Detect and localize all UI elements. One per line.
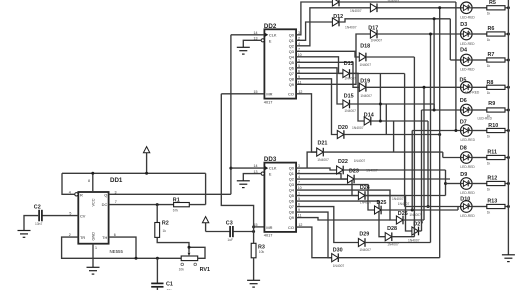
wire E DD2 to ground: [243, 40, 261, 47]
svg-text:Q7: Q7: [289, 204, 294, 209]
svg-text:1k: 1k: [163, 229, 167, 233]
svg-text:LED-RED: LED-RED: [460, 191, 475, 195]
wire D20 cathode: [344, 134, 440, 136]
LED D10: [461, 201, 473, 213]
wire D28 cathode: [392, 236, 415, 238]
svg-text:D4: D4: [460, 48, 467, 54]
wire D18 cathode to LED D4 row: [366, 56, 415, 58]
resistor R5: [472, 7, 487, 9]
counter DD3 body: [264, 163, 296, 232]
svg-text:D3: D3: [460, 22, 467, 28]
svg-text:15: 15: [254, 223, 258, 227]
R pin inversion circle: [75, 193, 78, 196]
svg-text:LED-RED: LED-RED: [460, 68, 475, 72]
svg-text:Q2: Q2: [289, 177, 294, 182]
svg-text:1N4007: 1N4007: [345, 26, 357, 30]
diode D19: [359, 83, 366, 92]
LED D9: [461, 178, 473, 190]
wire D25 cathode: [381, 209, 458, 211]
svg-text:7: 7: [115, 200, 117, 204]
wire D21 anode L: [307, 152, 317, 168]
resistor R3: [253, 227, 255, 243]
svg-text:Q9: Q9: [289, 82, 294, 87]
svg-text:67k: 67k: [173, 209, 179, 213]
wire D19 cathode to LED D5 row: [366, 86, 461, 88]
svg-text:E: E: [269, 38, 272, 43]
wire C2 to ground: [24, 216, 38, 231]
wire row8 anode: [446, 183, 461, 185]
wire Q0 DD3 to D22: [296, 168, 337, 170]
wire R2 bottom to RV1 wiper: [157, 237, 189, 252]
wire RV1 right terminal to wiper: [189, 247, 205, 258]
wire D17 cathode to LED D3 row: [377, 33, 461, 35]
LED D4: [461, 54, 473, 66]
wire bundle link A: [379, 74, 381, 122]
ground E DD2: [237, 47, 250, 54]
junction VCC pin 8: [91, 172, 94, 175]
wire Q2 DD3 to D24: [296, 179, 358, 195]
svg-text:MR: MR: [266, 92, 272, 97]
svg-text:Q9: Q9: [289, 215, 294, 220]
svg-text:C3: C3: [226, 221, 233, 227]
svg-text:1k: 1k: [487, 134, 491, 138]
svg-text:D20: D20: [338, 125, 348, 131]
wire bundle D30 to row1: [439, 8, 441, 258]
resistor R8: [472, 86, 487, 88]
svg-text:1N4007: 1N4007: [398, 202, 410, 206]
svg-text:R2: R2: [162, 221, 169, 227]
svg-text:1N4007: 1N4007: [409, 213, 421, 217]
ground right rail: [502, 255, 515, 262]
svg-text:1: 1: [95, 246, 97, 250]
diode D17: [370, 30, 377, 39]
wire row6 anode: [412, 130, 460, 132]
diode D29: [358, 238, 365, 247]
LED D3: [461, 28, 473, 40]
junction C3 node: [252, 230, 255, 233]
wire Q2 DD2 to D16: [296, 8, 370, 46]
wire D29 cathode: [365, 242, 431, 244]
wire D14 cathode: [371, 120, 428, 122]
resistor R13: [472, 206, 487, 208]
wire Q7 DD3 to D29: [296, 207, 358, 243]
svg-text:4017: 4017: [264, 99, 273, 104]
svg-text:10k: 10k: [179, 268, 185, 272]
diode D23: [348, 175, 355, 184]
diode D14: [364, 117, 371, 126]
resistor R12: [472, 183, 487, 185]
wire Q3 DD3 to D25: [296, 185, 374, 210]
svg-text:1N4007: 1N4007: [360, 200, 372, 204]
wire clock trunk vertical: [230, 35, 232, 195]
wire bundle D11 to row6: [455, 2, 457, 131]
svg-text:Q2: Q2: [289, 43, 294, 48]
wire Q6 DD2 to D15: [296, 68, 343, 104]
potentiometer RV1: [181, 256, 198, 261]
svg-text:LED-RED: LED-RED: [465, 91, 480, 95]
diode D15: [343, 100, 350, 109]
wire bundle D22 to row8: [445, 170, 447, 196]
svg-text:R10: R10: [488, 123, 498, 129]
svg-text:D6: D6: [460, 98, 467, 104]
svg-text:VCC: VCC: [92, 198, 96, 206]
wire bundle D23 to row9: [449, 19, 451, 60]
diode D21: [317, 148, 324, 157]
svg-text:1k: 1k: [487, 187, 491, 191]
svg-text:NE555: NE555: [110, 249, 124, 254]
svg-text:1k: 1k: [487, 38, 491, 42]
svg-text:10k: 10k: [259, 250, 265, 254]
wire Q0 DD2 to D11: [296, 2, 332, 35]
wire Q output to clock trunk: [109, 193, 231, 195]
diode D30: [332, 253, 339, 262]
diode D20: [337, 130, 344, 139]
ground E DD3: [237, 181, 250, 188]
svg-text:1k: 1k: [487, 210, 491, 214]
diode D26: [396, 216, 403, 225]
wire Q1 DD3 to D23: [296, 174, 347, 179]
wire bundle D14 to row9: [427, 121, 429, 207]
svg-text:Q8: Q8: [289, 210, 294, 215]
svg-text:1N4007: 1N4007: [366, 169, 378, 173]
svg-text:1N4007: 1N4007: [387, 0, 399, 4]
ground R3: [247, 280, 260, 287]
svg-text:D14: D14: [364, 113, 374, 119]
svg-text:D25: D25: [377, 200, 387, 206]
wire D21 cathode: [323, 151, 443, 153]
E inversion circle DD3: [261, 172, 264, 175]
svg-text:D8: D8: [460, 146, 467, 152]
svg-text:D12: D12: [333, 14, 343, 20]
LED D7: [461, 125, 473, 137]
svg-text:D10: D10: [460, 196, 470, 202]
svg-text:D5: D5: [460, 77, 467, 83]
svg-text:GND: GND: [92, 232, 96, 241]
junction R2 top: [156, 203, 159, 206]
svg-text:Q4: Q4: [289, 54, 295, 59]
wire TR pin loop: [62, 237, 182, 258]
svg-text:Q3: Q3: [289, 49, 294, 54]
wire D23 cathode: [354, 178, 450, 180]
diode D13: [343, 69, 350, 78]
svg-text:DD3: DD3: [264, 156, 277, 163]
wire Q4 DD3 to D26: [296, 190, 396, 220]
svg-text:1k: 1k: [487, 114, 491, 118]
svg-text:R9: R9: [488, 101, 495, 107]
resistor R6: [472, 33, 487, 35]
svg-text:CV: CV: [80, 214, 86, 219]
wire Q8 DD2 to D20: [296, 79, 337, 135]
ground C2: [18, 231, 31, 238]
wire D26 cathode: [403, 219, 424, 221]
wire CO DD3 to D30: [296, 227, 332, 258]
wire bundle D12 to row5: [433, 19, 435, 110]
svg-text:1N4007: 1N4007: [360, 63, 372, 67]
wire row5 anode: [422, 109, 461, 111]
junction D25 row bundle: [411, 209, 414, 212]
svg-text:1N4007: 1N4007: [344, 109, 356, 113]
svg-text:1N4007: 1N4007: [360, 94, 372, 98]
svg-text:R12: R12: [487, 176, 497, 182]
wire VCC top rail: [62, 172, 206, 174]
E inversion circle DD2: [261, 39, 264, 42]
svg-text:R7: R7: [488, 52, 495, 58]
wire D24 cathode: [365, 195, 446, 197]
svg-text:R13: R13: [487, 199, 497, 205]
wire Q8 DD3 to D30 anode: [296, 212, 332, 258]
wire D27 cathode: [418, 230, 421, 232]
svg-text:Q4: Q4: [289, 188, 295, 193]
power arrow VCC near C3: [205, 223, 207, 232]
wire Q9 DD2 to D17: [296, 34, 370, 84]
svg-text:DC: DC: [102, 202, 108, 207]
wire Q5 DD2 to D19: [296, 62, 359, 87]
wire R3 to ground: [253, 258, 255, 281]
svg-text:D17: D17: [368, 26, 378, 32]
diode D12: [332, 18, 339, 27]
wire Q1 DD2 to D12: [296, 22, 332, 40]
wire DC pin to R1: [109, 204, 174, 206]
svg-text:1N4007: 1N4007: [354, 159, 366, 163]
junction DD3 clock tee: [229, 167, 232, 170]
svg-text:6: 6: [114, 233, 116, 237]
svg-text:Q: Q: [104, 193, 107, 198]
svg-text:R: R: [80, 192, 83, 197]
resistor R10: [472, 130, 487, 132]
op-amp/timer DD1 NE555 body: [78, 192, 108, 244]
wire bundle D21 to row7: [442, 152, 444, 157]
svg-text:Q7: Q7: [289, 71, 294, 76]
resistor R2: [156, 205, 158, 223]
svg-text:DD2: DD2: [264, 23, 277, 30]
svg-text:1N4007: 1N4007: [359, 248, 371, 252]
wire bundle D15 down: [433, 104, 435, 110]
wire bundle D18 to D28: [413, 57, 415, 237]
wire MR DD3 stub: [254, 226, 265, 228]
junction C1 on bottom rail: [156, 257, 159, 260]
wire D22 cathode: [343, 169, 445, 171]
svg-text:D9: D9: [460, 172, 467, 178]
svg-text:D29: D29: [359, 232, 369, 238]
svg-text:D19: D19: [360, 79, 370, 85]
svg-text:CLK: CLK: [269, 166, 277, 171]
wire Q5 DD3 to D27: [296, 196, 412, 231]
wire VCC rail drop to R1: [205, 173, 207, 204]
svg-text:1uF: 1uF: [227, 238, 233, 242]
LED D6: [461, 104, 473, 116]
svg-text:R11: R11: [487, 150, 497, 156]
junction RV1 wiper link: [188, 246, 191, 249]
wire D12 cathode: [339, 19, 450, 22]
svg-text:1k: 1k: [487, 64, 491, 68]
LED D5: [461, 82, 473, 94]
wire CLK DD3: [231, 167, 265, 169]
LED D2: [461, 2, 473, 14]
svg-text:D23: D23: [349, 169, 359, 175]
svg-text:LED-RED: LED-RED: [478, 117, 493, 121]
resistor R9: [472, 109, 487, 111]
svg-text:1N4007: 1N4007: [317, 158, 329, 162]
wire Q9 DD3 jog: [296, 218, 390, 220]
wire E DD3 to ground: [243, 174, 261, 181]
diode D16: [370, 4, 377, 13]
svg-text:R6: R6: [488, 26, 495, 32]
svg-text:1N4007: 1N4007: [371, 39, 383, 43]
svg-text:Q0: Q0: [289, 32, 295, 37]
svg-text:Q3: Q3: [289, 182, 294, 187]
wire bundle link B: [385, 104, 387, 135]
svg-text:Q6: Q6: [289, 199, 294, 204]
wire bundle D25 jog to row9: [457, 207, 459, 211]
wire GND pin 1: [92, 244, 94, 268]
wire MR DD2 stub: [221, 93, 264, 95]
capacitor C1: [156, 258, 158, 283]
svg-text:RV1: RV1: [200, 267, 210, 273]
wire bundle D25 to row6: [411, 131, 413, 211]
wire R pin to VCC rail: [62, 173, 75, 194]
svg-text:Q0: Q0: [289, 166, 295, 171]
svg-text:DD1: DD1: [110, 177, 123, 184]
diode D27: [412, 227, 419, 236]
svg-text:1N4007: 1N4007: [333, 264, 345, 268]
wire right ground rail: [507, 0, 509, 255]
svg-text:E: E: [269, 172, 272, 177]
svg-text:Q1: Q1: [289, 171, 294, 176]
svg-text:D7: D7: [460, 120, 467, 126]
svg-text:D22: D22: [338, 159, 348, 165]
svg-text:Q5: Q5: [289, 193, 294, 198]
wire D16 cathode to LED D2 row: [377, 7, 461, 9]
svg-text:LED-RED: LED-RED: [460, 42, 475, 46]
resistor R1: [174, 203, 190, 207]
svg-text:1k: 1k: [487, 161, 491, 165]
svg-text:LED-RED: LED-RED: [460, 165, 475, 169]
junction dots on LED rows: [438, 6, 441, 9]
svg-text:1N4007: 1N4007: [392, 197, 404, 201]
junction TH on bottom rail: [135, 257, 138, 260]
svg-text:D13: D13: [344, 61, 354, 67]
svg-text:LED-RED: LED-RED: [460, 214, 475, 218]
wire D13 cathode: [349, 73, 404, 75]
svg-text:1k: 1k: [487, 91, 491, 95]
wire Q6 DD3 to D28: [296, 201, 385, 237]
wire Q3 DD2 to D18: [296, 51, 359, 57]
svg-text:Q1: Q1: [289, 38, 294, 43]
wire bundle link C: [393, 121, 395, 152]
wire D15 cathode: [349, 103, 434, 105]
LED D8: [461, 152, 473, 164]
wire row3 anode: [450, 59, 460, 61]
diode D18: [359, 53, 366, 62]
svg-text:D26: D26: [398, 211, 408, 217]
svg-text:D24: D24: [360, 185, 370, 191]
svg-text:MR: MR: [266, 225, 272, 230]
wire TH pin drop: [109, 237, 136, 258]
diode D11: [332, 0, 339, 6]
svg-text:CO: CO: [288, 92, 294, 97]
svg-text:R8: R8: [487, 80, 494, 86]
diode D28: [385, 232, 392, 241]
svg-text:13n7: 13n7: [35, 222, 43, 226]
svg-text:1N4007: 1N4007: [387, 243, 399, 247]
diode D24: [358, 191, 365, 200]
ground DD1: [87, 267, 100, 274]
svg-text:R5: R5: [489, 0, 496, 6]
wire row7 anode: [443, 157, 461, 159]
svg-text:TH: TH: [102, 235, 107, 240]
diode D22: [337, 166, 344, 175]
svg-text:Q8: Q8: [289, 76, 294, 81]
wire bundle D26 to row4: [423, 87, 425, 220]
svg-text:D15: D15: [344, 94, 354, 100]
resistor R7: [472, 59, 487, 61]
counter DD2 body: [264, 29, 296, 98]
junction MR node: [252, 225, 255, 228]
wire D30 cathode: [338, 257, 440, 259]
svg-text:1k: 1k: [487, 12, 491, 16]
svg-text:1N4007: 1N4007: [352, 126, 364, 130]
svg-text:CO: CO: [288, 225, 294, 230]
wire D11 cathode: [339, 1, 456, 3]
svg-text:1N4007: 1N4007: [350, 9, 362, 13]
svg-text:D18: D18: [360, 43, 370, 49]
svg-text:CLK: CLK: [269, 32, 277, 37]
wire VCC pin 8 stub: [92, 173, 94, 192]
wire Q4 DD2 to D13: [296, 57, 343, 74]
junction arrow on rail: [145, 172, 148, 175]
svg-text:LED-RED: LED-RED: [460, 16, 475, 20]
svg-text:D21: D21: [318, 141, 328, 147]
wire bundle D27 to row5: [421, 110, 423, 231]
svg-text:Q6: Q6: [289, 65, 294, 70]
power arrow VCC near DD1: [146, 153, 148, 174]
wire CLK DD2: [231, 34, 265, 36]
svg-text:8: 8: [88, 179, 90, 183]
wire row9 anode: [405, 206, 461, 208]
svg-text:C1: C1: [166, 282, 173, 288]
svg-text:D28: D28: [387, 226, 397, 232]
svg-text:1N4007: 1N4007: [344, 77, 356, 81]
svg-text:4017: 4017: [264, 233, 273, 238]
svg-text:C2: C2: [34, 205, 41, 211]
svg-text:Q5: Q5: [289, 60, 294, 65]
wire CO DD2 to D21: [296, 94, 317, 152]
svg-text:TR: TR: [80, 235, 85, 240]
svg-text:R1: R1: [173, 197, 180, 203]
wire MR link DD2 to POR node: [221, 94, 253, 227]
wire bundle D13 to row9: [404, 74, 406, 207]
wire Q7 DD2 to D14: [296, 73, 364, 121]
resistor R11: [472, 157, 487, 159]
wire bundle D29 to row2: [430, 34, 432, 243]
svg-text:LED-RED: LED-RED: [461, 138, 476, 142]
diode D25: [375, 206, 382, 215]
svg-text:D30: D30: [333, 247, 343, 253]
